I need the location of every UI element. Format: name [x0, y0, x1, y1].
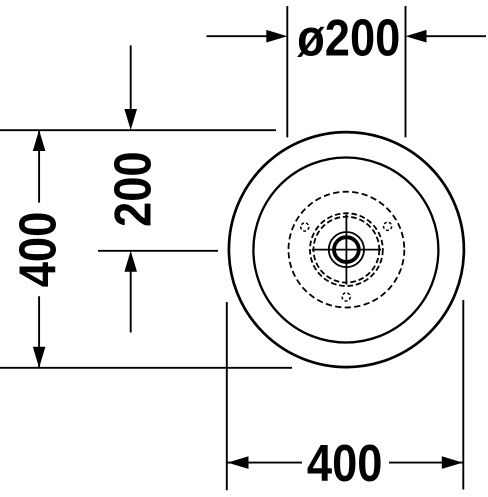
bottom 400 left arrowhead pointing left: [228, 456, 249, 469]
ø200 extension line left: [286, 6, 288, 137]
ø200 left arrowhead pointing right: [266, 30, 287, 43]
fixing hole dashed circle bottom: [342, 293, 350, 301]
extension line bottom tangent: [0, 367, 292, 369]
svg-text:400: 400: [10, 212, 67, 288]
dashed cut-out circle ø200: [289, 192, 405, 308]
dimension 200, down arrowhead: [124, 109, 137, 130]
extension line top tangent: [0, 129, 276, 131]
bottom 400 extension line right: [462, 300, 464, 490]
ø200 extension line right: [405, 6, 407, 137]
fixing hole dashed circle left: [301, 223, 309, 231]
dimension 200, lower leader: [130, 271, 132, 332]
dimension 400 left, upper segment: [38, 130, 40, 203]
dimension 200, upper leader: [130, 45, 132, 109]
svg-text:400: 400: [307, 435, 383, 492]
dimension 400 left, up arrowhead: [33, 130, 46, 151]
dashed drain flange circle outer: [310, 213, 383, 286]
extension line center left: [98, 250, 218, 252]
svg-text:200: 200: [105, 151, 162, 227]
basin outer rim circle: [229, 132, 464, 367]
dimension 200, up arrowhead: [124, 251, 137, 272]
ø200 right arrowhead pointing left: [406, 30, 427, 43]
dimension 400 left, down arrowhead: [33, 347, 46, 368]
svg-text:ø200: ø200: [297, 10, 400, 67]
drain waste thick ring: [334, 237, 359, 262]
dashed drain flange circle inner: [314, 217, 380, 283]
bottom 400 dim line right segment: [389, 462, 463, 464]
fixing hole dashed circle right: [384, 222, 392, 230]
bottom 400 extension line left: [226, 302, 228, 490]
drain centerline vertical: [345, 214, 347, 284]
bottom 400 right arrowhead pointing right: [442, 456, 463, 469]
ø200 left leader line: [207, 35, 269, 37]
drain centerline horizontal: [312, 249, 381, 251]
basin inner bowl circle: [253, 158, 438, 343]
dimension 400 left, lower segment: [38, 296, 40, 368]
drain outlet thin circle: [329, 232, 364, 267]
bottom 400 dim line left segment: [228, 462, 303, 464]
ø200 right leader line: [425, 35, 487, 37]
